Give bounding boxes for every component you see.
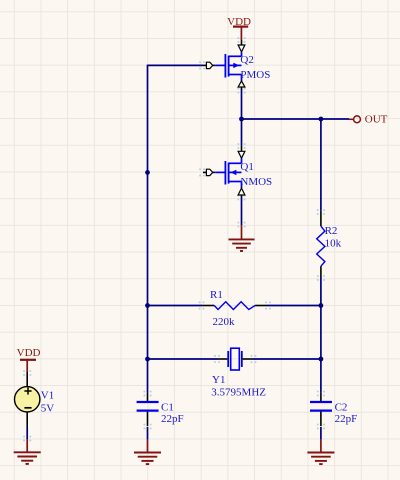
resistor R2 [317,211,342,277]
wire V1 bottom [26,428,28,440]
wire Q2 gate [148,64,204,66]
node crystal left [145,357,150,362]
wire crystal row left [148,358,219,360]
wire OUT row [242,118,350,120]
capacitor C1 [137,393,184,426]
wire R1 row left [148,305,203,307]
wire C2 bottom [320,427,322,440]
svg-text:Y1: Y1 [212,374,225,386]
transistor Q1 [203,146,272,197]
svg-text:Q1: Q1 [240,161,253,173]
svg-text:R2: R2 [325,225,338,237]
wire C1 bottom [147,427,149,440]
capacitor C2 [310,393,357,426]
pin connection markers [23,37,325,441]
crystal Y1 [211,348,266,398]
node OUT row at drain column [239,117,244,122]
svg-text:C2: C2 [335,402,348,414]
wire left bus [147,65,149,359]
svg-text:C1: C1 [161,402,174,414]
svg-text:OUT: OUT [365,114,388,126]
power port VDD top [227,16,251,40]
svg-text:3.5795MHZ: 3.5795MHZ [211,386,266,398]
power port VDD left [17,347,41,372]
wire Q1 source to ground [241,197,243,226]
svg-text:R1: R1 [210,289,223,301]
svg-text:5V: 5V [41,402,55,414]
svg-text:22pF: 22pF [161,413,184,425]
svg-text:Q2: Q2 [240,54,253,66]
wire right bus R2 to R1 [320,277,322,306]
ground below Q1 [229,225,255,251]
svg-text:220k: 220k [213,316,236,328]
port OUT [349,114,388,126]
ground below C1 [134,440,161,465]
wire R1 row right [267,305,321,307]
wire right bus upper [320,119,322,211]
svg-text:V1: V1 [41,389,54,401]
svg-text:10k: 10k [325,238,342,250]
node crystal right [319,357,324,362]
node OUT row at R2 column [319,117,324,122]
ground below V1 [14,439,41,464]
voltage source V1 [15,372,55,428]
node Q1 gate at left bus [145,170,150,175]
wire right bus R1 to crystal [320,306,322,360]
ground below C2 [307,440,334,465]
wire crystal row right [253,358,321,360]
transistor Q2 [203,40,270,89]
wire C2 top [320,359,322,393]
node R1 left [145,303,150,308]
svg-text:22pF: 22pF [335,413,358,425]
wire C1 top [147,359,149,393]
svg-text:NMOS: NMOS [240,176,272,188]
svg-text:PMOS: PMOS [240,69,270,81]
svg-text:VDD: VDD [17,347,41,359]
resistor R1 [202,289,267,328]
node R1 right [319,303,324,308]
wire Q2 source to Q1 drain [241,89,243,146]
